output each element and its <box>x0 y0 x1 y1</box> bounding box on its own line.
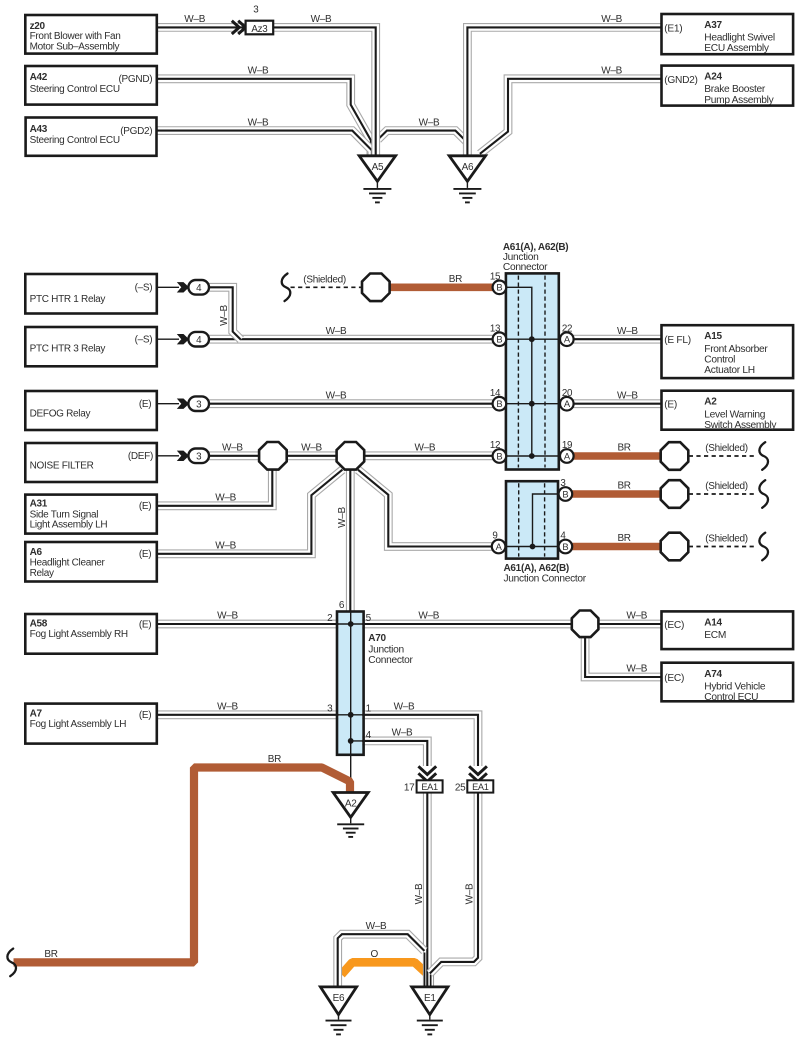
svg-text:3: 3 <box>327 704 333 715</box>
svg-text:4: 4 <box>196 335 202 346</box>
svg-text:14: 14 <box>490 388 501 399</box>
svg-text:(–S): (–S) <box>135 335 153 346</box>
svg-text:BR: BR <box>617 443 630 454</box>
svg-text:BR: BR <box>268 754 281 765</box>
svg-text:Motor Sub–Assembly: Motor Sub–Assembly <box>30 41 120 52</box>
svg-text:(Shielded): (Shielded) <box>705 443 748 454</box>
svg-text:W–B: W–B <box>626 611 647 622</box>
svg-text:W–B: W–B <box>248 117 269 128</box>
svg-text:W–B: W–B <box>418 611 439 622</box>
svg-text:A2: A2 <box>704 397 717 408</box>
svg-text:(EC): (EC) <box>664 673 684 684</box>
svg-text:W–B: W–B <box>394 702 415 713</box>
svg-text:W–B: W–B <box>626 664 647 675</box>
svg-text:(E): (E) <box>139 549 151 560</box>
svg-text:A74: A74 <box>704 669 722 680</box>
svg-text:W–B: W–B <box>601 66 622 77</box>
svg-text:B: B <box>496 282 502 293</box>
svg-text:Control ECU: Control ECU <box>704 692 758 703</box>
svg-text:A37: A37 <box>704 20 722 31</box>
svg-text:Level Warning: Level Warning <box>704 409 765 420</box>
svg-text:25: 25 <box>455 783 466 794</box>
svg-text:19: 19 <box>562 440 572 451</box>
svg-text:3: 3 <box>560 478 566 489</box>
svg-text:A: A <box>496 541 503 552</box>
svg-text:(PGD2): (PGD2) <box>120 126 152 137</box>
svg-text:9: 9 <box>492 531 497 542</box>
svg-text:W–B: W–B <box>311 14 332 25</box>
svg-text:W–B: W–B <box>415 443 436 454</box>
svg-text:2: 2 <box>327 613 333 624</box>
svg-text:A14: A14 <box>704 617 722 628</box>
svg-text:A2: A2 <box>345 799 357 810</box>
svg-text:(E): (E) <box>139 710 151 721</box>
svg-text:4: 4 <box>366 730 372 741</box>
svg-text:3: 3 <box>196 451 202 462</box>
svg-text:W–B: W–B <box>301 443 322 454</box>
svg-text:Steering Control ECU: Steering Control ECU <box>30 84 120 95</box>
svg-text:(EC): (EC) <box>664 620 684 631</box>
svg-text:(E): (E) <box>664 400 677 411</box>
svg-text:A5: A5 <box>372 162 384 173</box>
svg-text:Headlight Swivel: Headlight Swivel <box>704 33 775 44</box>
svg-text:BR: BR <box>449 274 462 285</box>
svg-text:W–B: W–B <box>601 14 622 25</box>
svg-text:W–B: W–B <box>414 883 425 904</box>
svg-text:12: 12 <box>490 440 500 451</box>
svg-text:DEFOG Relay: DEFOG Relay <box>30 409 91 420</box>
svg-text:A70: A70 <box>368 633 386 644</box>
svg-text:W–B: W–B <box>217 611 238 622</box>
svg-text:22: 22 <box>562 323 572 334</box>
svg-text:A43: A43 <box>30 124 48 135</box>
svg-text:A61(A), A62(B): A61(A), A62(B) <box>504 563 569 574</box>
svg-text:15: 15 <box>490 272 501 283</box>
svg-text:EA1: EA1 <box>421 782 438 792</box>
svg-text:W–B: W–B <box>326 390 347 401</box>
svg-text:W–B: W–B <box>392 728 413 739</box>
svg-text:Junction Connector: Junction Connector <box>504 574 587 585</box>
svg-text:W–B: W–B <box>617 326 638 337</box>
svg-text:A24: A24 <box>704 72 722 83</box>
svg-text:W–B: W–B <box>326 326 347 337</box>
svg-text:W–B: W–B <box>215 493 236 504</box>
svg-text:4: 4 <box>196 283 202 294</box>
svg-text:Control: Control <box>704 354 735 365</box>
svg-text:BR: BR <box>44 949 57 960</box>
svg-text:BR: BR <box>617 481 630 492</box>
svg-text:W–B: W–B <box>222 443 243 454</box>
svg-text:1: 1 <box>366 704 372 715</box>
svg-text:W–B: W–B <box>219 304 230 325</box>
svg-text:(Shielded): (Shielded) <box>303 274 346 285</box>
svg-text:PTC HTR 3 Relay: PTC HTR 3 Relay <box>30 344 106 355</box>
svg-text:Az3: Az3 <box>251 24 268 35</box>
svg-text:(E): (E) <box>139 501 151 512</box>
svg-text:Fog Light Assembly LH: Fog Light Assembly LH <box>30 719 127 730</box>
svg-text:E6: E6 <box>333 993 345 1004</box>
svg-text:(E1): (E1) <box>664 23 682 34</box>
svg-text:Connector: Connector <box>503 262 548 273</box>
svg-text:(–S): (–S) <box>135 283 153 294</box>
svg-text:W–B: W–B <box>617 390 638 401</box>
svg-text:Hybrid Vehicle: Hybrid Vehicle <box>704 682 766 693</box>
svg-text:(E): (E) <box>139 399 151 410</box>
svg-text:A7: A7 <box>30 708 43 719</box>
svg-text:(GND2): (GND2) <box>664 75 697 86</box>
svg-text:13: 13 <box>490 323 501 334</box>
svg-text:W–B: W–B <box>419 117 440 128</box>
svg-text:(E FL): (E FL) <box>664 335 691 346</box>
svg-text:B: B <box>496 450 502 461</box>
svg-text:(DEF): (DEF) <box>128 451 153 462</box>
svg-text:Relay: Relay <box>30 568 54 579</box>
svg-text:EA1: EA1 <box>472 782 489 792</box>
svg-text:E1: E1 <box>424 993 436 1004</box>
svg-text:B: B <box>562 541 568 552</box>
svg-text:A42: A42 <box>30 72 48 83</box>
svg-text:A: A <box>564 334 571 345</box>
svg-text:A: A <box>564 398 571 409</box>
svg-text:A: A <box>564 450 571 461</box>
svg-text:Headlight Cleaner: Headlight Cleaner <box>30 558 106 569</box>
svg-text:20: 20 <box>562 388 573 399</box>
svg-text:5: 5 <box>366 613 372 624</box>
svg-text:W–B: W–B <box>366 921 387 932</box>
svg-text:(Shielded): (Shielded) <box>705 481 748 492</box>
svg-text:ECM: ECM <box>704 630 726 641</box>
svg-text:Actuator LH: Actuator LH <box>704 365 755 376</box>
svg-text:Connector: Connector <box>368 655 413 666</box>
svg-text:A31: A31 <box>30 498 48 509</box>
svg-text:W–B: W–B <box>248 66 269 77</box>
svg-text:Brake Booster: Brake Booster <box>704 84 766 95</box>
svg-text:W–B: W–B <box>215 541 236 552</box>
svg-text:BR: BR <box>617 533 630 544</box>
svg-text:Steering Control ECU: Steering Control ECU <box>30 135 120 146</box>
svg-text:Switch Assembly: Switch Assembly <box>704 420 777 431</box>
svg-text:W–B: W–B <box>217 702 238 713</box>
svg-text:O: O <box>371 949 379 960</box>
svg-text:A15: A15 <box>704 331 722 342</box>
svg-text:W–B: W–B <box>465 883 476 904</box>
svg-text:B: B <box>562 488 568 499</box>
svg-text:W–B: W–B <box>337 506 348 527</box>
svg-text:A6: A6 <box>462 162 474 173</box>
svg-text:Junction: Junction <box>368 644 404 655</box>
svg-text:(PGND): (PGND) <box>119 74 153 85</box>
svg-text:(Shielded): (Shielded) <box>705 534 748 545</box>
svg-text:B: B <box>496 398 502 409</box>
svg-text:PTC HTR 1 Relay: PTC HTR 1 Relay <box>30 294 106 305</box>
svg-text:A58: A58 <box>30 619 48 630</box>
svg-text:W–B: W–B <box>184 14 205 25</box>
svg-text:B: B <box>496 334 502 345</box>
svg-text:A6: A6 <box>30 547 43 558</box>
svg-text:Light Assembly LH: Light Assembly LH <box>30 520 108 531</box>
svg-text:ECU Assembly: ECU Assembly <box>704 43 770 54</box>
svg-text:3: 3 <box>196 399 202 410</box>
svg-text:Front Absorber: Front Absorber <box>704 344 768 355</box>
svg-text:(E): (E) <box>139 619 151 630</box>
svg-text:NOISE FILTER: NOISE FILTER <box>30 461 94 472</box>
svg-text:4: 4 <box>560 531 566 542</box>
svg-text:Fog Light Assembly RH: Fog Light Assembly RH <box>30 629 128 640</box>
svg-text:3: 3 <box>253 4 259 15</box>
svg-text:Pump Assembly: Pump Assembly <box>704 95 774 106</box>
svg-text:6: 6 <box>339 600 345 611</box>
svg-text:17: 17 <box>404 783 415 794</box>
